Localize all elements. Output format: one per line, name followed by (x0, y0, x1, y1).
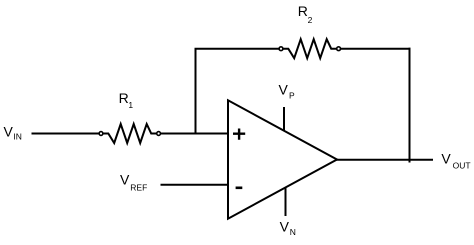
svg-text:V: V (279, 82, 289, 98)
node right terminal of R1 (open circle) (157, 132, 161, 136)
svg-text:V: V (4, 124, 14, 140)
svg-text:OUT: OUT (453, 161, 471, 171)
label V_P (279, 82, 296, 101)
svg-text:V: V (441, 151, 451, 167)
label R1 (119, 90, 134, 110)
svg-text:REF: REF (130, 183, 147, 193)
wire R2 to right vertical (341, 48, 411, 50)
svg-text:2: 2 (308, 15, 313, 25)
op-amp U1 (228, 100, 337, 218)
wire R1 to op-amp + input (161, 133, 228, 135)
wire top left to R2 (195, 48, 279, 50)
wire right feedback vertical down to output (409, 48, 411, 163)
node left terminal of R1 (open circle) (99, 132, 103, 136)
label V_IN (4, 124, 22, 142)
pin V_N vertical (285, 187, 287, 216)
wire V_REF to op-amp - input (161, 184, 228, 186)
label V_OUT (441, 151, 470, 171)
svg-text:N: N (290, 227, 296, 237)
svg-text:IN: IN (13, 132, 22, 142)
label V_REF (120, 172, 147, 193)
node left terminal of R2 (open circle) (279, 47, 283, 51)
pin V_P vertical (283, 107, 285, 131)
op-amp + input symbol (233, 129, 245, 140)
svg-text:R: R (298, 3, 308, 19)
svg-text:R: R (119, 90, 129, 106)
wire feedback tap vertical (node to top wire) (195, 49, 197, 134)
resistor R1 (103, 124, 156, 143)
svg-text:V: V (280, 219, 290, 235)
wire V_IN lead to R1 (32, 133, 99, 135)
wire op-amp output (336, 159, 433, 161)
svg-text:1: 1 (128, 100, 133, 110)
label R2 (298, 3, 313, 25)
svg-text:V: V (120, 172, 130, 188)
svg-text:P: P (289, 90, 295, 100)
label V_N (280, 219, 296, 238)
op-amp - input symbol (236, 187, 243, 190)
node right terminal of R2 (open circle) (337, 47, 341, 51)
resistor R2 (283, 39, 336, 58)
